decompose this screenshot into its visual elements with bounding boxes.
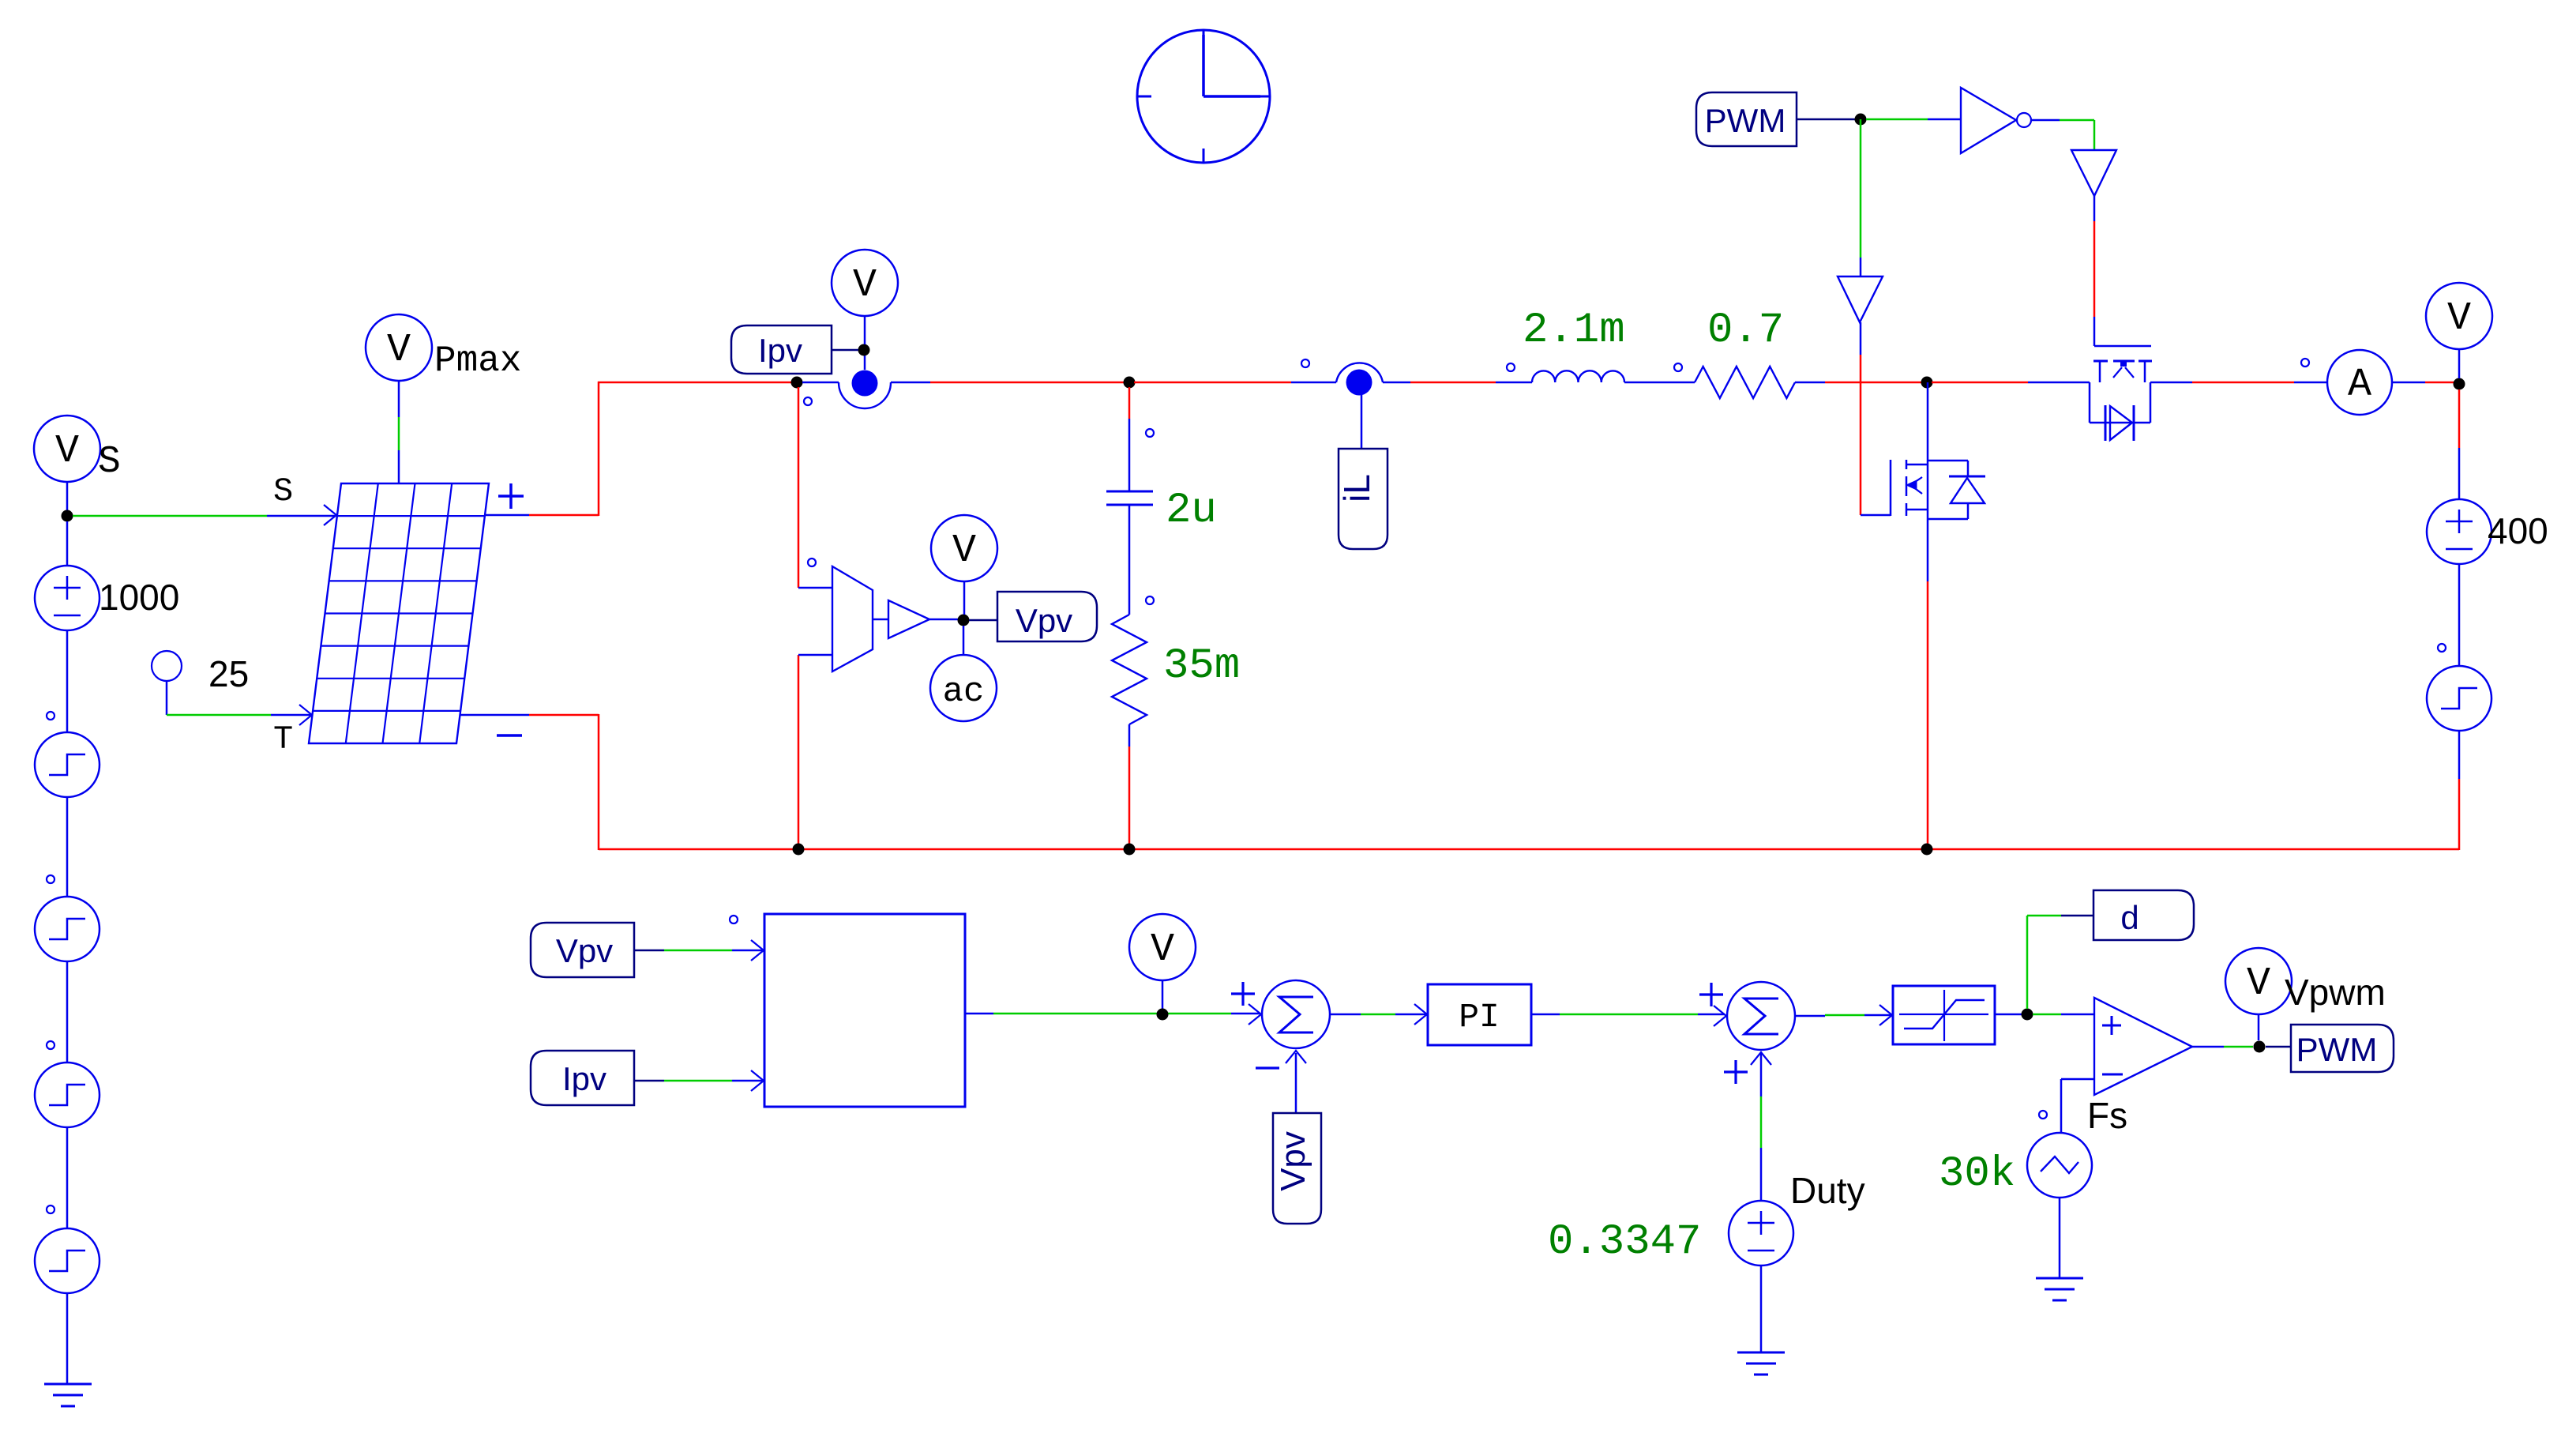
svg-text:0.3347: 0.3347 <box>1548 1218 1701 1266</box>
svg-text:PWM: PWM <box>2296 1031 2378 1068</box>
svg-text:V: V <box>853 263 877 308</box>
svg-text:35m: 35m <box>1163 642 1240 690</box>
svg-text:25: 25 <box>208 653 249 694</box>
svg-text:V: V <box>387 328 411 373</box>
svg-text:A: A <box>2348 363 2371 408</box>
svg-text:S: S <box>98 441 121 483</box>
svg-text:Vpv: Vpv <box>1016 602 1072 639</box>
svg-text:V: V <box>1151 927 1174 972</box>
svg-text:V: V <box>2247 961 2270 1006</box>
svg-text:Ipv: Ipv <box>758 332 802 369</box>
svg-text:T: T <box>273 720 293 758</box>
svg-text:2u: 2u <box>1166 487 1217 535</box>
svg-text:0.7: 0.7 <box>1707 307 1784 355</box>
svg-text:V: V <box>952 528 976 574</box>
svg-text:400: 400 <box>2488 510 2548 551</box>
svg-text:Vpwm: Vpwm <box>2285 972 2386 1013</box>
svg-text:30k: 30k <box>1939 1150 2015 1198</box>
svg-text:V: V <box>55 429 79 474</box>
svg-text:Ipv: Ipv <box>562 1060 606 1097</box>
svg-text:ac: ac <box>943 672 985 712</box>
svg-text:PI: PI <box>1459 998 1500 1036</box>
svg-text:Pmax: Pmax <box>434 340 521 382</box>
svg-text:iL: iL <box>1336 474 1377 502</box>
svg-text:S: S <box>273 472 293 510</box>
svg-text:Vpv: Vpv <box>1274 1131 1312 1191</box>
svg-text:V: V <box>2447 296 2471 341</box>
svg-text:1000: 1000 <box>99 577 179 618</box>
svg-text:Vpv: Vpv <box>556 932 613 969</box>
svg-text:Fs: Fs <box>2087 1095 2127 1136</box>
svg-text:d: d <box>2120 899 2139 936</box>
svg-text:PWM: PWM <box>1705 102 1786 139</box>
svg-text:2.1m: 2.1m <box>1523 307 1625 355</box>
svg-text:Duty: Duty <box>1790 1170 1865 1211</box>
